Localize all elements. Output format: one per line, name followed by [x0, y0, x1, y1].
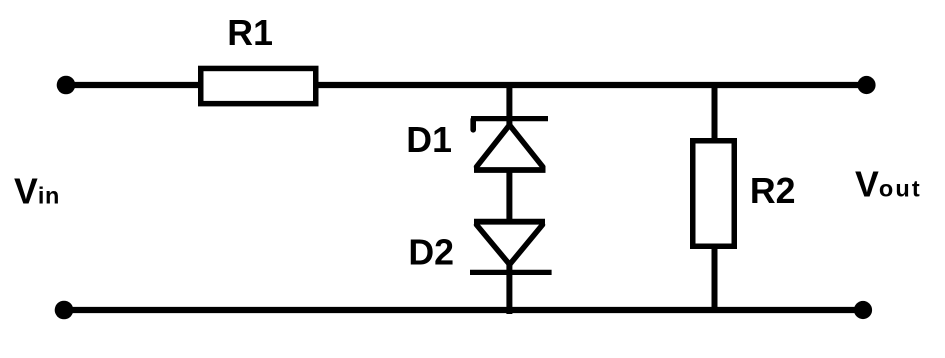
svg-text:D2: D2	[408, 233, 454, 273]
svg-text:R1: R1	[227, 13, 273, 53]
svg-text:D1: D1	[406, 120, 452, 160]
svg-text:R2: R2	[750, 171, 796, 211]
